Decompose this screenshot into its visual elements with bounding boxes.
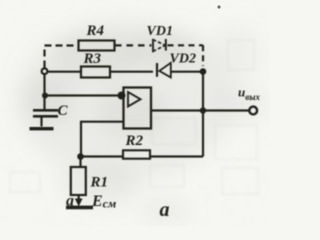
svg-text:R2: R2 (125, 133, 144, 149)
svg-text:a: a (66, 193, 74, 210)
svg-text:R4: R4 (86, 23, 105, 39)
svg-text:R1: R1 (90, 175, 109, 191)
svg-text:VD1: VD1 (147, 24, 173, 39)
svg-text:a: a (160, 199, 170, 221)
svg-text:R3: R3 (83, 51, 102, 67)
svg-text:Eсм: Eсм (91, 193, 116, 211)
svg-text:VD2: VD2 (170, 52, 196, 67)
svg-text:C: C (58, 103, 69, 119)
